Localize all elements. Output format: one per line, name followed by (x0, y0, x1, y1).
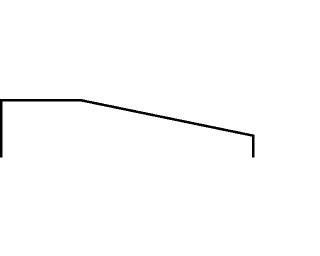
wire (1, 100, 253, 157)
profile polyline (open trapezoid shape) (0, 0, 256, 256)
